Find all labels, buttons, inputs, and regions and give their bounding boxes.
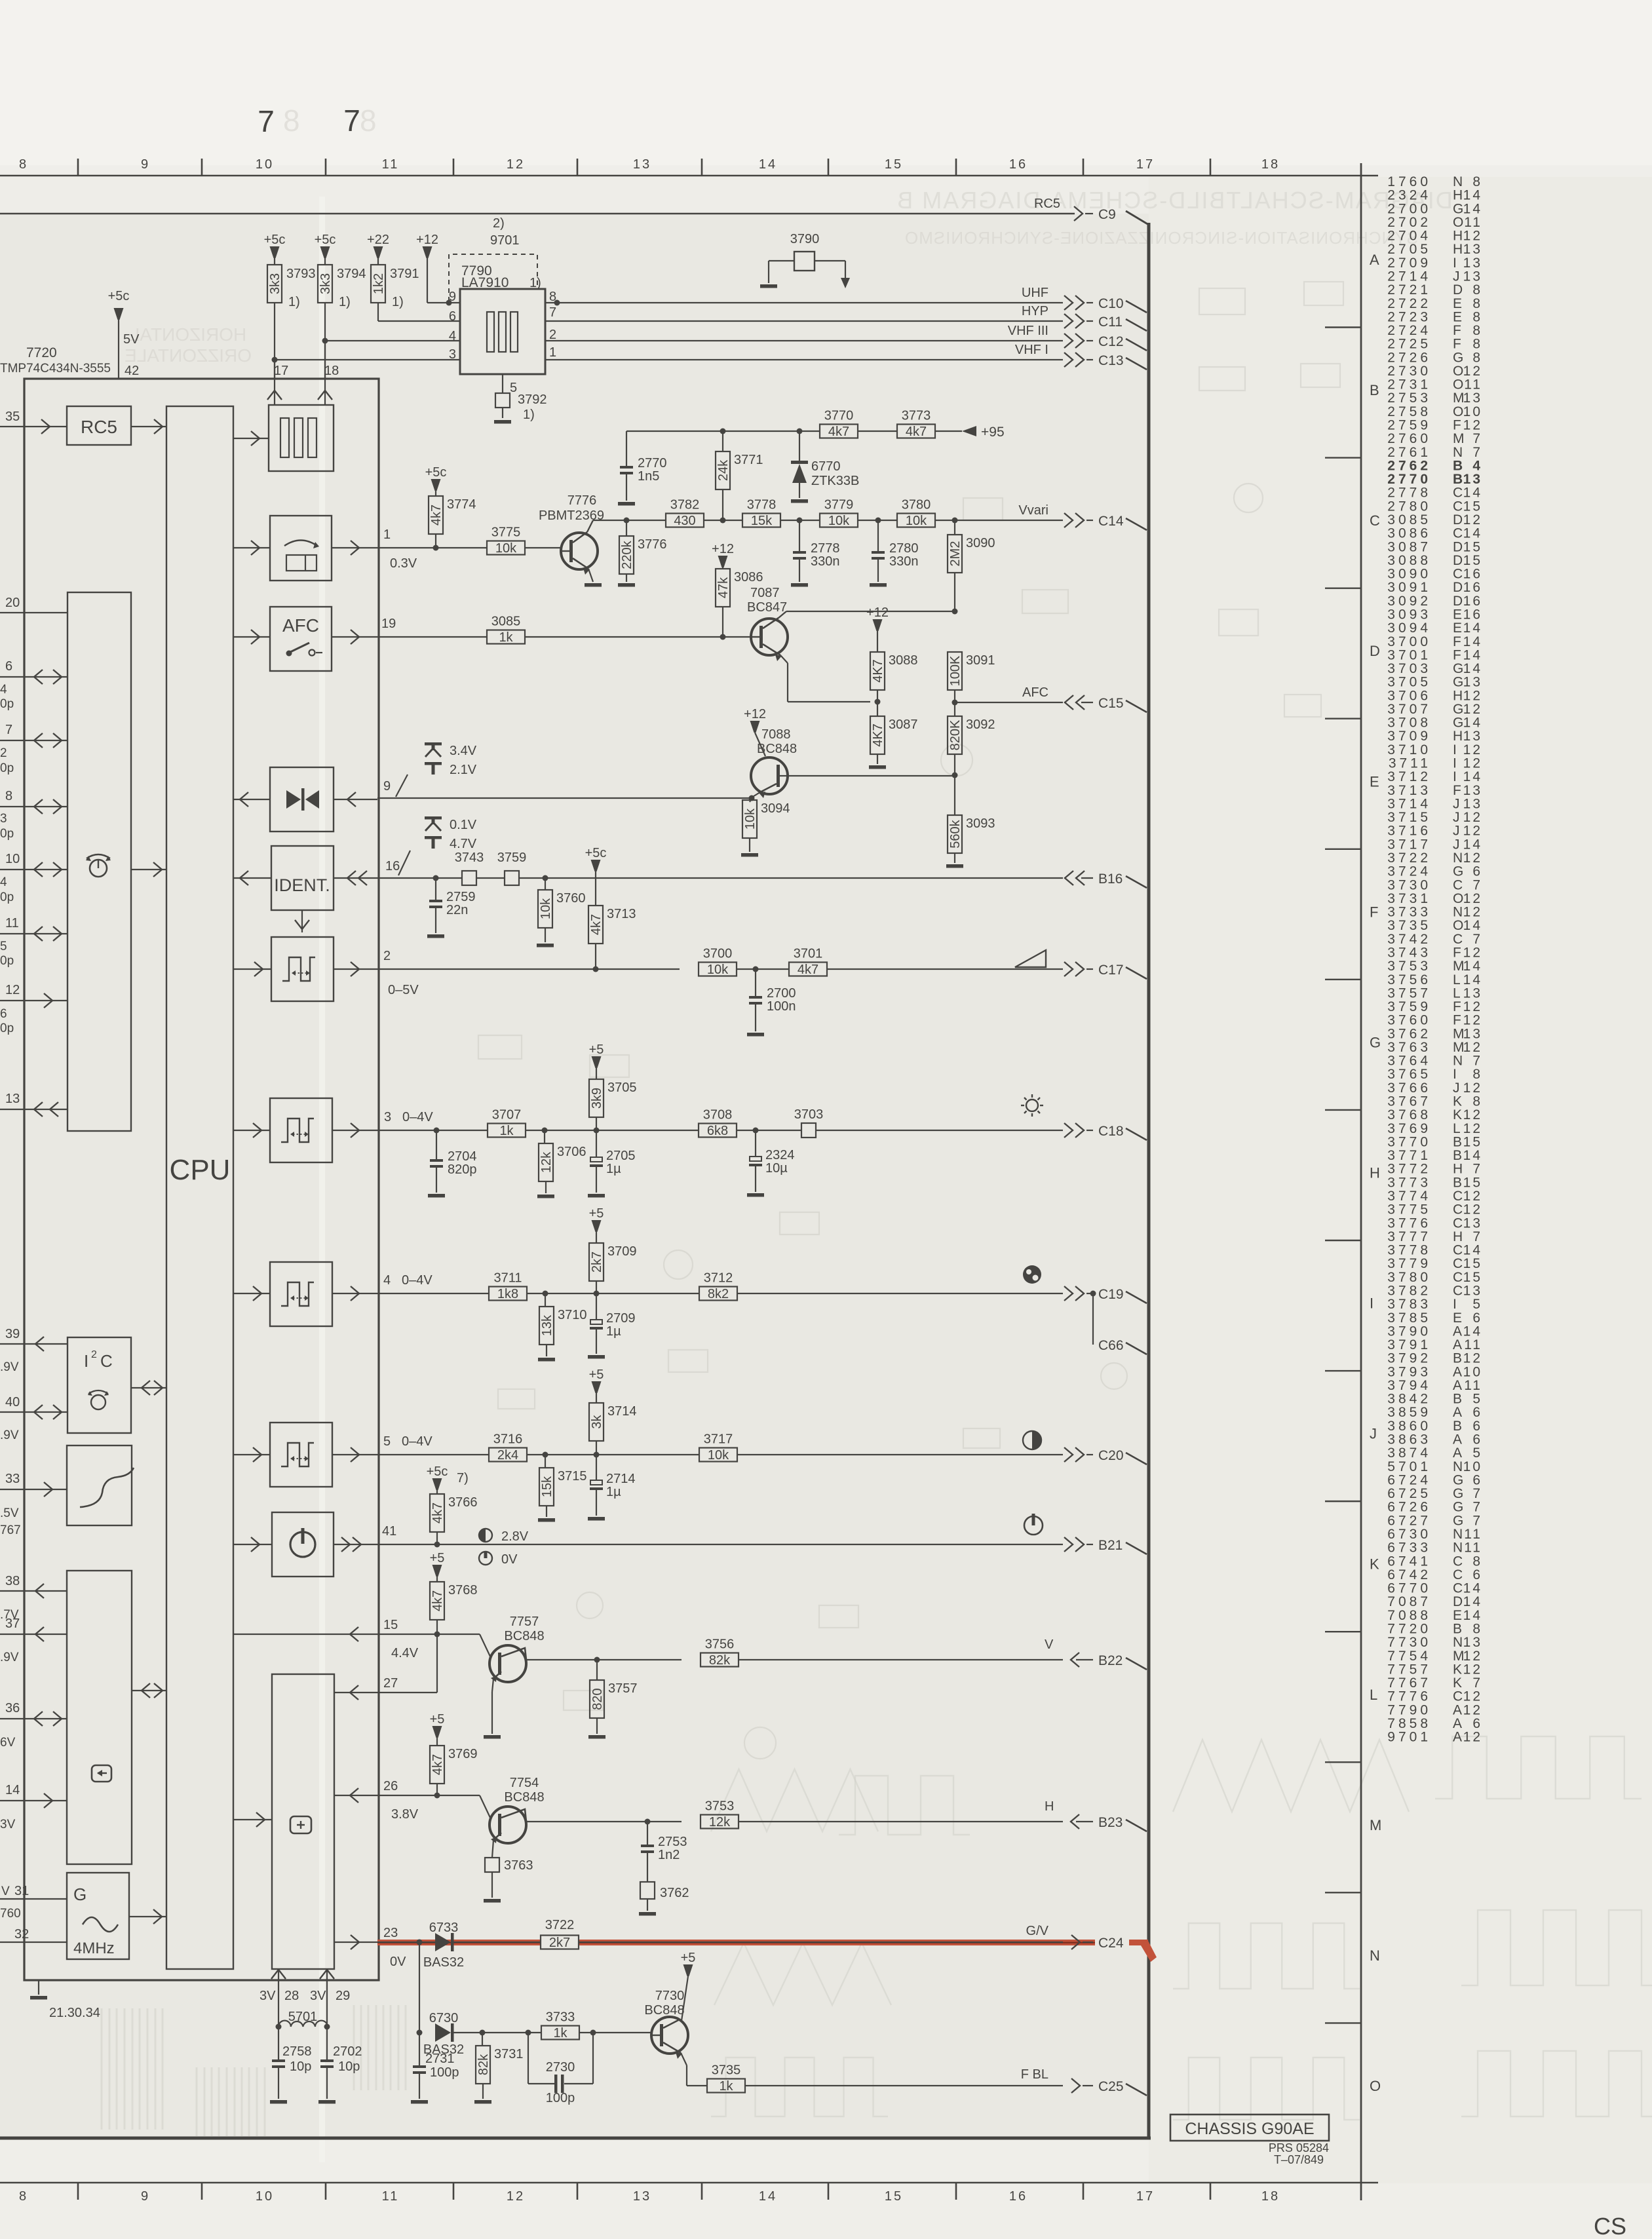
svg-text:+12: +12 (416, 233, 438, 247)
svg-text:0–5V: 0–5V (388, 983, 419, 997)
svg-text:K: K (1453, 1675, 1462, 1691)
VHF III wire pin2 to C12 (545, 340, 1063, 341)
svg-text:3705: 3705 (607, 1081, 637, 1095)
svg-text:13: 13 (1463, 391, 1482, 406)
pin27 wire (334, 1692, 377, 1693)
svg-text:3774: 3774 (1387, 1189, 1431, 1204)
svg-text:+22: +22 (367, 233, 389, 247)
svg-text:7776: 7776 (1387, 1689, 1431, 1704)
capacitor 2759 (435, 878, 436, 900)
resistor 3779 (820, 514, 858, 527)
top ruler ticks (77, 159, 79, 176)
LA7910 pin4 wire (324, 303, 326, 341)
svg-text:11: 11 (1464, 215, 1482, 230)
svg-text:3094: 3094 (1387, 621, 1431, 636)
7757 collector (501, 1648, 526, 1660)
svg-text:14: 14 (1463, 647, 1482, 662)
svg-text:12: 12 (5, 983, 20, 997)
svg-text:12: 12 (1463, 1662, 1482, 1677)
svg-text:L: L (1453, 1121, 1461, 1136)
svg-text:H: H (1453, 1162, 1463, 1177)
svg-text:2700: 2700 (1387, 201, 1431, 216)
svg-text:14: 14 (5, 1783, 20, 1797)
svg-text:13: 13 (1463, 472, 1482, 487)
pin5 line to C20 (377, 1454, 489, 1455)
svg-text:3715: 3715 (558, 1469, 587, 1483)
svg-text:3706: 3706 (557, 1145, 586, 1159)
svg-text:.9V: .9V (0, 1651, 19, 1664)
svg-text:7: 7 (1472, 1513, 1482, 1528)
brightness icon (1026, 1100, 1038, 1111)
svg-text:32: 32 (14, 1927, 29, 1942)
svg-text:2709: 2709 (606, 1311, 636, 1326)
svg-text:N: N (1453, 1527, 1463, 1542)
svg-text:B: B (1453, 1419, 1462, 1434)
svg-text:12: 12 (1463, 702, 1482, 717)
svg-text:2759: 2759 (1387, 418, 1431, 433)
svg-text:3: 3 (384, 1110, 391, 1124)
svg-text:0–4V: 0–4V (402, 1273, 432, 1288)
wire drop to 6730 (419, 1942, 420, 2033)
diode 6730 BAS32 (435, 2023, 451, 2042)
svg-text:41: 41 (382, 1524, 396, 1539)
svg-text:14: 14 (759, 2189, 777, 2204)
svg-text:+12: +12 (744, 707, 766, 721)
S-curve block (67, 1445, 132, 1525)
svg-text:E: E (1453, 309, 1462, 324)
schematic interior tone (0, 214, 1149, 2138)
svg-text:C17: C17 (1098, 963, 1124, 978)
svg-text:C10: C10 (1098, 296, 1124, 311)
svg-text:N: N (1453, 851, 1463, 866)
svg-text:18: 18 (1261, 2189, 1280, 2204)
pin18 drop (324, 341, 326, 379)
svg-text:3701: 3701 (794, 947, 823, 961)
svg-text:H: H (1453, 229, 1463, 244)
pin19 wire 3085 (377, 636, 488, 638)
7088 base wire (780, 775, 955, 776)
svg-text:B: B (1453, 1134, 1462, 1149)
resistor 3716 (489, 1448, 527, 1462)
svg-text:12: 12 (1463, 1040, 1482, 1055)
svg-text:3792: 3792 (518, 392, 547, 407)
svg-text:N: N (1453, 1054, 1463, 1069)
svg-text:10k: 10k (828, 514, 850, 528)
svg-text:7: 7 (1472, 1675, 1482, 1691)
resistor 3793 (270, 246, 280, 258)
svg-text:4k7: 4k7 (431, 1590, 445, 1611)
resistor 3090 2M2 (954, 520, 955, 535)
svg-text:3743: 3743 (1387, 945, 1431, 960)
svg-text:40: 40 (5, 1395, 20, 1409)
svg-text:3722: 3722 (545, 1918, 575, 1932)
svg-text:3777: 3777 (1387, 1229, 1431, 1244)
svg-text:21.30.34: 21.30.34 (49, 2006, 100, 2020)
svg-text:14: 14 (1463, 201, 1482, 216)
svg-text:6: 6 (1472, 1405, 1482, 1420)
svg-text:14: 14 (1463, 837, 1482, 852)
svg-text:C: C (100, 1351, 113, 1371)
svg-text:B: B (1453, 1175, 1462, 1190)
svg-text:15: 15 (1463, 1270, 1482, 1285)
svg-text:6726: 6726 (1387, 1500, 1431, 1515)
resistor 3773 (897, 425, 935, 438)
svg-text:12: 12 (1463, 688, 1482, 703)
resistor 3782 (666, 514, 704, 527)
VHF I wire pin1 to C13 (545, 359, 1063, 360)
svg-text:9: 9 (383, 779, 391, 794)
svg-text:100n: 100n (767, 999, 796, 1014)
svg-text:7): 7) (457, 1471, 469, 1485)
svg-text:13: 13 (1463, 256, 1482, 271)
svg-text:10k: 10k (495, 541, 517, 556)
svg-text:7730: 7730 (1387, 1635, 1431, 1650)
svg-text:C: C (1453, 1581, 1463, 1596)
svg-text:0p: 0p (0, 827, 14, 841)
svg-text:16: 16 (1463, 567, 1482, 582)
svg-text:10: 10 (256, 157, 274, 172)
ghost bleed-through layer (125, 104, 1453, 366)
svg-text:3769: 3769 (448, 1747, 478, 1761)
svg-text:3700: 3700 (1387, 634, 1431, 649)
svg-text:7088: 7088 (1387, 1608, 1431, 1623)
svg-text:8: 8 (19, 157, 28, 172)
LA7910 pin3 wire (274, 303, 275, 360)
svg-text:3782: 3782 (670, 498, 700, 512)
saturation icon (1023, 1265, 1041, 1284)
svg-text:3768: 3768 (448, 1583, 478, 1598)
svg-text:3710: 3710 (558, 1308, 587, 1322)
svg-text:6: 6 (1472, 1716, 1482, 1731)
svg-text:4k7: 4k7 (431, 1502, 445, 1523)
svg-text:4: 4 (1472, 458, 1482, 473)
svg-text:K: K (1453, 1107, 1462, 1122)
pin9 wire across (377, 797, 752, 799)
svg-text:12: 12 (1463, 1702, 1482, 1717)
svg-text:12: 12 (1463, 756, 1482, 771)
svg-text:10p: 10p (338, 2059, 360, 2074)
svg-text:0p: 0p (0, 954, 14, 968)
red highlighted G/V trace (377, 1940, 1148, 1945)
IDENT to pulse1 arrow (301, 910, 303, 932)
svg-text:I: I (1453, 769, 1457, 784)
svg-text:6741: 6741 (1387, 1554, 1431, 1569)
svg-text:4: 4 (0, 875, 7, 889)
svg-text:3733: 3733 (546, 2010, 575, 2025)
svg-text:3794: 3794 (337, 267, 366, 281)
svg-text:O: O (1453, 364, 1463, 379)
ghost circuit fragments (1199, 288, 1245, 315)
svg-text:G: G (1453, 716, 1463, 731)
svg-text:42: 42 (125, 364, 139, 378)
svg-text:2778: 2778 (811, 541, 840, 556)
Vvari line (593, 520, 666, 521)
svg-text:LA7910: LA7910 (461, 275, 509, 290)
svg-text:V: V (1, 1885, 10, 1898)
svg-text:39: 39 (5, 1327, 20, 1341)
svg-text:C: C (1453, 1189, 1463, 1204)
svg-text:3791: 3791 (1387, 1337, 1431, 1352)
pin 17 entry (274, 360, 275, 405)
svg-text:7: 7 (549, 305, 556, 320)
resistor 3707 (488, 1124, 526, 1138)
7754 collector (501, 1809, 526, 1822)
svg-text:10p: 10p (290, 2059, 311, 2074)
svg-text:+5: +5 (681, 1951, 696, 1965)
pin 41 wire (334, 1544, 377, 1545)
svg-text:UHF: UHF (1022, 286, 1048, 300)
wire tuning block to bus (131, 869, 166, 870)
svg-text:H: H (1453, 1229, 1463, 1244)
svg-text:7: 7 (1472, 431, 1482, 446)
svg-text:C: C (1453, 1554, 1463, 1569)
svg-text:3086: 3086 (1387, 526, 1431, 541)
svg-text:F: F (1453, 647, 1461, 662)
svg-text:J: J (1453, 269, 1460, 284)
svg-text:29: 29 (336, 1989, 350, 2003)
svg-text:12: 12 (1463, 1689, 1482, 1704)
svg-text:6k8: 6k8 (707, 1124, 728, 1138)
svg-text:12k: 12k (539, 1151, 554, 1173)
svg-text:27: 27 (383, 1676, 398, 1691)
svg-text:3776: 3776 (1387, 1215, 1431, 1231)
svg-text:3722: 3722 (1387, 851, 1431, 866)
svg-text:3772: 3772 (1387, 1162, 1431, 1177)
svg-text:13: 13 (1463, 269, 1482, 284)
svg-text:2723: 2723 (1387, 309, 1431, 324)
pin3 line to C18 (377, 1130, 488, 1131)
svg-text:2324: 2324 (765, 1148, 795, 1162)
svg-text:13: 13 (1463, 1026, 1482, 1041)
svg-text:2724: 2724 (1387, 323, 1431, 338)
svg-text:8: 8 (1472, 1067, 1482, 1082)
svg-text:3770: 3770 (824, 409, 854, 423)
I2C block (67, 1337, 131, 1433)
resistor 3709 2k7 (592, 1220, 602, 1232)
svg-text:16: 16 (385, 859, 400, 873)
svg-text:8: 8 (5, 789, 12, 803)
svg-text:3V: 3V (259, 1989, 276, 2003)
svg-text:16: 16 (1009, 2189, 1028, 2204)
svg-text:14: 14 (1463, 918, 1482, 933)
7757 collector wire to B22 (526, 1659, 682, 1660)
svg-text:6730: 6730 (1387, 1527, 1431, 1542)
svg-text:1k2: 1k2 (372, 273, 386, 294)
svg-text:8: 8 (1472, 323, 1482, 338)
svg-text:C15: C15 (1098, 696, 1124, 711)
svg-text:12: 12 (1463, 1351, 1482, 1366)
svg-text:2k7: 2k7 (590, 1252, 604, 1273)
svg-text:3753: 3753 (1387, 959, 1431, 974)
svg-text:N: N (1453, 174, 1463, 189)
svg-text:3774: 3774 (447, 497, 476, 512)
svg-text:14: 14 (1463, 188, 1482, 203)
resistor 3706 12k (544, 1130, 545, 1143)
svg-text:15: 15 (1463, 1134, 1482, 1149)
svg-text:35: 35 (5, 410, 20, 424)
svg-text:E: E (1453, 1311, 1462, 1326)
svg-text:VHF I: VHF I (1015, 343, 1048, 357)
svg-text:3735: 3735 (712, 2063, 741, 2078)
svg-text:PRS 05284: PRS 05284 (1269, 2141, 1329, 2154)
svg-text:8: 8 (1472, 337, 1482, 352)
svg-text:12: 12 (507, 2189, 525, 2204)
svg-text:+5: +5 (589, 1206, 604, 1221)
svg-text:D: D (1453, 553, 1463, 568)
svg-text:3k9: 3k9 (590, 1088, 604, 1109)
svg-text:H: H (1453, 729, 1463, 744)
svg-text:C: C (1453, 1243, 1463, 1258)
svg-text:BC848: BC848 (757, 742, 797, 756)
svg-text:C: C (1453, 1256, 1463, 1271)
svg-text:3713: 3713 (1387, 783, 1431, 798)
svg-text:G/V: G/V (1026, 1924, 1049, 1938)
svg-text:3733: 3733 (1387, 905, 1431, 920)
svg-text:12: 12 (1463, 905, 1482, 920)
resistor 3771 (720, 429, 726, 434)
svg-text:6725: 6725 (1387, 1486, 1431, 1501)
chassis label box (1170, 2115, 1329, 2141)
svg-text:14: 14 (1463, 661, 1482, 676)
svg-text:15: 15 (1463, 499, 1482, 514)
AFC block (270, 607, 332, 671)
svg-text:2: 2 (549, 328, 556, 342)
resistor 3094 10k (750, 798, 752, 802)
svg-text:3709: 3709 (1387, 729, 1431, 744)
svg-text:N: N (1453, 1541, 1463, 1556)
svg-text:3715: 3715 (1387, 810, 1431, 825)
svg-text:2324: 2324 (1387, 188, 1431, 203)
svg-text:6: 6 (5, 659, 12, 674)
svg-text:C14: C14 (1098, 514, 1124, 529)
pin2 line to C17 (377, 968, 680, 970)
svg-text:+5: +5 (589, 1043, 604, 1057)
svg-text:7720: 7720 (1387, 1621, 1431, 1636)
svg-text:14: 14 (1463, 1148, 1482, 1163)
resistor 3756 82k (701, 1653, 739, 1667)
svg-text:BC848: BC848 (644, 2003, 684, 2018)
pulse block pin2 (271, 937, 334, 1001)
svg-text:7757: 7757 (510, 1615, 539, 1629)
7757 emitter (493, 1672, 501, 1679)
pulse block pin5 (270, 1423, 332, 1487)
svg-text:3087: 3087 (889, 718, 918, 732)
svg-text:3742: 3742 (1387, 932, 1431, 947)
svg-text:3708: 3708 (1387, 716, 1431, 731)
svg-text:12: 12 (1463, 851, 1482, 866)
svg-text:3759: 3759 (1387, 999, 1431, 1014)
svg-text:6733: 6733 (429, 1921, 459, 1935)
bottom ruler ticks (77, 2183, 79, 2200)
resistor 3713 4k7 (591, 860, 601, 871)
svg-text:H: H (1045, 1799, 1054, 1814)
svg-text:C: C (1453, 877, 1463, 892)
svg-text:IDENT.: IDENT. (274, 875, 330, 895)
svg-text:10: 10 (1463, 1459, 1482, 1474)
svg-text:3707: 3707 (492, 1108, 522, 1122)
svg-text:3780: 3780 (902, 498, 931, 512)
svg-text:2704: 2704 (1387, 229, 1431, 244)
svg-text:B23: B23 (1098, 1815, 1123, 1830)
svg-text:I: I (1453, 256, 1457, 271)
svg-text:2758: 2758 (282, 2044, 312, 2059)
svg-text:11: 11 (1464, 1541, 1482, 1556)
svg-text:47k: 47k (716, 577, 731, 598)
svg-text:3757: 3757 (608, 1681, 638, 1696)
svg-text:G: G (1453, 1513, 1463, 1528)
svg-text:3V: 3V (0, 1818, 16, 1831)
svg-text:14: 14 (759, 157, 777, 172)
svg-text:10k: 10k (743, 808, 758, 830)
svg-text:G: G (1453, 1486, 1463, 1501)
svg-text:820K: 820K (948, 719, 963, 750)
tuner bars block (269, 405, 334, 471)
svg-text:2731: 2731 (1387, 377, 1431, 392)
svg-text:G: G (1453, 661, 1463, 676)
svg-text:15k: 15k (751, 514, 773, 528)
resistor 3717 (699, 1448, 737, 1462)
svg-text:F: F (1453, 323, 1461, 338)
svg-text:12k: 12k (709, 1815, 731, 1829)
wire mute to bus (233, 799, 270, 800)
LA7910 pin5 + 3792 (502, 374, 503, 393)
svg-text:1n2: 1n2 (658, 1848, 680, 1862)
LA7910 pin9 wire (427, 302, 460, 303)
resistor 3769 4k7 (432, 1726, 442, 1738)
resistor 3700 (699, 963, 737, 976)
resistor 3775 (487, 541, 525, 555)
svg-text:4.4V: 4.4V (391, 1646, 419, 1660)
svg-text:VHF III: VHF III (1008, 324, 1048, 338)
svg-text:C: C (1453, 1689, 1463, 1704)
svg-text:4K7: 4K7 (871, 659, 885, 683)
wire 6730 to 3733 (453, 2032, 541, 2033)
svg-text:7: 7 (1472, 445, 1482, 460)
wire I2C to bus (131, 1387, 166, 1388)
capacitor 2714 (596, 1455, 597, 1480)
svg-text:J: J (1370, 1426, 1377, 1442)
svg-text:1µ: 1µ (606, 1485, 621, 1499)
svg-text:0.3V: 0.3V (390, 556, 417, 571)
wire G to bus (129, 1916, 166, 1917)
svg-text:13: 13 (1463, 796, 1482, 811)
svg-text:12: 12 (1463, 512, 1482, 527)
svg-text:3756: 3756 (1387, 972, 1431, 987)
resistor 3760 10k (543, 875, 548, 881)
svg-text:8: 8 (1472, 309, 1482, 324)
resistor 3086 47k (718, 556, 728, 567)
svg-text:2780: 2780 (889, 541, 919, 556)
tuning voltage block (270, 516, 332, 581)
svg-text:13: 13 (1463, 242, 1482, 257)
svg-text:20: 20 (5, 596, 20, 610)
svg-text:+5c: +5c (427, 1464, 448, 1479)
capacitor 2780 (877, 520, 879, 551)
svg-text:C: C (1453, 932, 1463, 947)
svg-text:3791: 3791 (390, 267, 419, 281)
wire OSD to bus (132, 1690, 166, 1691)
svg-text:G: G (1370, 1034, 1381, 1050)
resistor 3087 (870, 716, 885, 754)
svg-text:3724: 3724 (1387, 864, 1431, 879)
resistor 3791 (374, 246, 383, 258)
svg-text:8: 8 (1472, 174, 1482, 189)
svg-text:3765: 3765 (1387, 1067, 1431, 1082)
svg-text:+95: +95 (981, 425, 1005, 440)
pin26 wire (334, 1795, 377, 1796)
svg-text:3756: 3756 (705, 1637, 735, 1652)
svg-text:220k: 220k (620, 540, 634, 569)
